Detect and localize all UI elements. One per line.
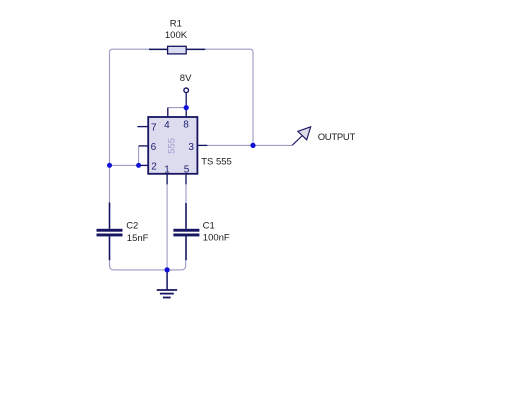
svg-text:100K: 100K	[165, 30, 188, 41]
svg-text:8V: 8V	[180, 73, 192, 84]
svg-text:15nF: 15nF	[127, 233, 149, 244]
svg-text:7: 7	[151, 123, 157, 134]
svg-text:6: 6	[151, 142, 157, 153]
svg-text:R1: R1	[170, 18, 182, 29]
svg-text:100nF: 100nF	[203, 233, 230, 244]
svg-text:5: 5	[184, 164, 190, 175]
svg-text:C1: C1	[203, 221, 215, 232]
svg-text:2: 2	[151, 162, 157, 173]
svg-text:4: 4	[164, 120, 170, 131]
svg-text:8: 8	[183, 120, 189, 131]
svg-text:C2: C2	[126, 221, 138, 232]
svg-text:3: 3	[188, 142, 194, 153]
svg-text:555: 555	[167, 138, 178, 154]
svg-text:1: 1	[164, 164, 170, 175]
svg-text:OUTPUT: OUTPUT	[318, 132, 356, 143]
svg-text:TS 555: TS 555	[201, 156, 232, 167]
